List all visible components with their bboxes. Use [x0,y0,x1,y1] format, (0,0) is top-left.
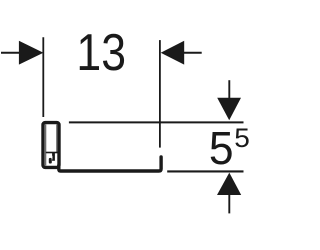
dim 13 right tail wire [184,52,202,54]
clip inner wall left [45,124,47,165]
clip inner hook blob [49,158,52,164]
clip inner wall right [56,124,58,152]
dim 13 left tail wire [1,52,20,54]
profile bottom flange and right lip [59,157,161,171]
clip inner shelf line [46,152,58,154]
svg-text:5: 5 [234,123,250,153]
dim 5.5 lower arrowhead (up) [217,173,241,195]
dim 5.5 upper arrowhead (down) [217,98,241,120]
dim 5.5 lower dimension line [167,170,243,172]
dim 5.5 lower arrow tail [228,194,230,213]
clip inner stem [52,153,55,161]
dim 5.5 upper arrow tail [228,80,230,99]
svg-text:13: 13 [76,24,126,82]
dim 13 left extension line [42,37,44,117]
clip inner hook notch [51,156,54,160]
clip outer outline [43,123,59,168]
svg-text:5: 5 [209,122,234,174]
dim 13 right extension line [159,40,161,148]
dim 13 right arrowhead [161,41,185,65]
dim 13 left arrowhead [19,41,44,65]
profile top surface line [69,121,244,123]
